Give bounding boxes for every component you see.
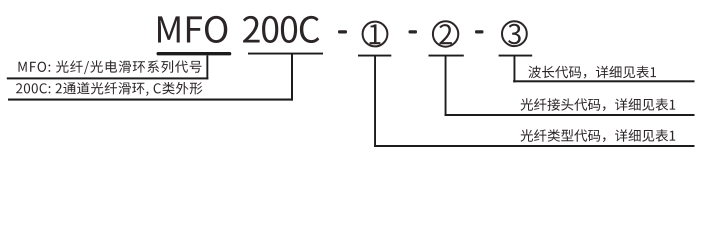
title text 200C (243, 16, 319, 43)
label text 200C channels (16, 82, 202, 96)
hyphen 2 (409, 30, 418, 33)
vertical wire from MFO underline (206, 55, 208, 79)
horizontal wire under fiber type label (374, 145, 694, 147)
title text MFO (158, 16, 227, 43)
label text MFO series (19, 60, 202, 74)
circle around 2 (433, 21, 458, 46)
hyphen 1 (338, 30, 347, 33)
label text fiber type code (521, 129, 676, 142)
label text wavelength code (528, 66, 656, 79)
circle around 3 (502, 21, 527, 46)
underline below 200C (248, 53, 323, 55)
horizontal wire under 200C label (8, 99, 293, 101)
underline below circle 3 (499, 55, 533, 57)
vertical wire from 200C underline (291, 55, 293, 101)
underline below circle 2 (429, 55, 464, 57)
vertical wire from circle 1 (374, 57, 376, 148)
horizontal wire under MFO label (7, 77, 209, 79)
thick underline below MFO (157, 52, 232, 55)
digit 1 in circle (370, 24, 381, 44)
horizontal wire under wavelength label (513, 80, 694, 82)
vertical wire from circle 2 (445, 57, 447, 117)
label text fiber connector code (521, 98, 676, 111)
digit 3 in circle (508, 24, 521, 44)
underline below circle 1 (358, 55, 391, 57)
hyphen 3 (475, 30, 484, 33)
vertical wire from circle 3 (514, 57, 516, 83)
digit 2 in circle (439, 24, 452, 44)
horizontal wire under connector label (445, 114, 695, 116)
circle around 1 (363, 22, 388, 47)
